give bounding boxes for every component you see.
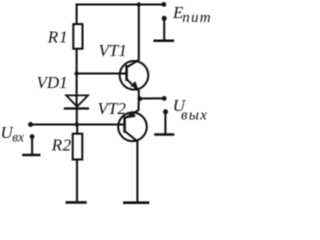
wire node B to R2 — [76, 125, 78, 134]
svg-text:VT1: VT1 — [99, 41, 127, 60]
wire VT1 collector up — [138, 5, 140, 61]
wire VD1 to node B — [76, 107, 78, 125]
wire input horizontal — [31, 124, 125, 126]
terminal Uvx dot — [28, 122, 33, 127]
wire R1 to node A — [76, 49, 78, 106]
svg-text:VT2: VT2 — [98, 99, 127, 118]
svg-text:вх: вх — [12, 129, 24, 144]
resistor R2 — [73, 134, 83, 160]
ground bar right — [123, 201, 149, 204]
node A junction dot — [74, 71, 78, 75]
ground bar left — [66, 201, 87, 204]
terminal Uvyh lower — [163, 109, 168, 114]
wire top rail — [76, 4, 164, 6]
svg-text:пит: пит — [182, 10, 211, 26]
wire R2 to ground — [76, 160, 78, 202]
svg-text:R2: R2 — [51, 136, 72, 155]
resistor R1 — [73, 24, 82, 49]
terminal Uvx lower — [30, 134, 35, 139]
wire VT1 base — [77, 73, 127, 75]
terminal E dot — [162, 2, 167, 7]
diode VD1 — [64, 95, 89, 108]
wire output — [139, 97, 164, 99]
wire VT2 collector down — [136, 141, 138, 203]
wire left vertical to R1 — [76, 4, 78, 24]
terminal E lower — [162, 16, 167, 21]
wire VT2 emitter up — [138, 99, 140, 111]
svg-text:VD1: VD1 — [37, 73, 68, 92]
svg-text:вых: вых — [181, 108, 208, 124]
junction dot rail — [137, 2, 141, 6]
transistor VT1 — [120, 60, 149, 91]
svg-text:R1: R1 — [47, 28, 69, 47]
node B junction dot — [75, 122, 79, 126]
wire VT1 emitter down to output node — [138, 90, 140, 98]
transistor VT2 — [118, 110, 147, 141]
terminal Uvyh dot — [162, 96, 167, 101]
node out junction dot — [138, 97, 143, 102]
